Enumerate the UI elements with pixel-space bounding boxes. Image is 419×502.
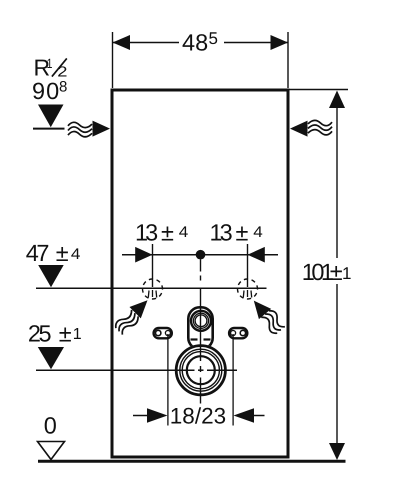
extension line right (width dim)	[287, 32, 289, 88]
18/23 arrow right	[234, 408, 255, 422]
svg-text:±: ±	[161, 220, 174, 246]
13 dims arrow right	[248, 247, 265, 263]
13 dims line	[122, 254, 278, 256]
level marker 47 triangle	[38, 265, 64, 287]
svg-text:1: 1	[73, 326, 82, 343]
extension line left (width dim)	[112, 32, 114, 88]
18/23 dim line right tail	[253, 415, 265, 417]
svg-text:90: 90	[32, 78, 60, 104]
level line 25	[36, 369, 237, 371]
fixing tab left	[154, 328, 172, 338]
height dim up arrow	[329, 91, 345, 109]
svg-text:48: 48	[182, 30, 208, 56]
svg-text:4: 4	[71, 246, 81, 263]
width dimension line	[113, 42, 179, 44]
width dim arrow right	[271, 35, 289, 50]
label R 1/2	[34, 55, 68, 81]
svg-text:1: 1	[47, 56, 53, 71]
floor line	[38, 460, 346, 463]
outlet big circle	[175, 344, 227, 396]
svg-text:8: 8	[59, 79, 67, 96]
height dim down arrow	[329, 443, 345, 460]
svg-text:±: ±	[59, 321, 72, 347]
18/23 dim line left tail	[133, 415, 148, 417]
18/23 arrow left	[147, 408, 168, 422]
width dim arrow left	[113, 35, 131, 50]
13 dims center dot	[196, 250, 206, 260]
svg-text:4: 4	[179, 224, 189, 241]
svg-text:±: ±	[236, 220, 249, 246]
tab extension line right	[232, 334, 234, 426]
diagonal wave arrow right	[248, 295, 287, 336]
dashed circle right (water connection)	[234, 276, 260, 302]
svg-text:±: ±	[330, 259, 343, 285]
zero level open triangle	[38, 442, 65, 460]
svg-text:1: 1	[342, 264, 351, 283]
svg-text:±: ±	[56, 240, 69, 266]
svg-text:13: 13	[135, 220, 158, 246]
dashed circle left (water connection)	[139, 276, 165, 302]
svg-text:5: 5	[209, 29, 218, 48]
svg-text:47: 47	[26, 240, 49, 266]
flush pipe neck	[188, 307, 212, 349]
13 dims tick left	[152, 244, 154, 287]
13 dims arrow left	[135, 247, 152, 263]
svg-text:0: 0	[44, 413, 57, 439]
13 dims tick right	[247, 244, 249, 287]
svg-text:18/23: 18/23	[170, 404, 226, 429]
fixing tab right	[229, 328, 247, 338]
level line 47	[36, 287, 267, 289]
level marker 90.8 triangle	[38, 105, 64, 128]
water inlet wave arrow left	[68, 121, 110, 137]
height dim extension line	[290, 89, 349, 91]
svg-text:4: 4	[253, 224, 263, 241]
centerline (vertical)	[200, 260, 202, 404]
svg-text:13: 13	[210, 220, 233, 246]
level marker 25 triangle	[38, 347, 64, 369]
svg-text:25: 25	[28, 321, 52, 347]
level marker 90.8 line	[33, 128, 65, 130]
height dim line lower	[336, 284, 338, 444]
diagonal wave arrow left	[112, 295, 153, 336]
height dim line upper	[336, 107, 338, 258]
flush pipe circles	[191, 311, 211, 331]
panel outline	[112, 90, 288, 457]
tab extension line left	[167, 334, 169, 426]
neck break dashes	[191, 338, 198, 340]
water inlet wave arrow right	[290, 120, 332, 136]
svg-text:101: 101	[302, 259, 333, 285]
